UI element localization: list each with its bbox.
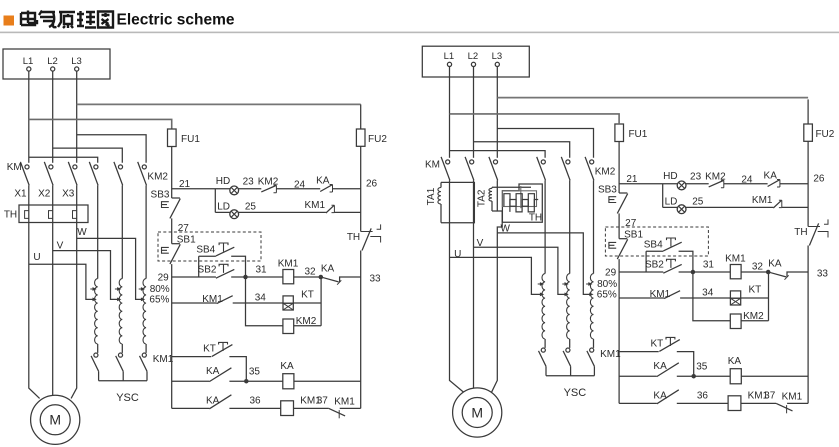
svg-text:L3: L3: [492, 51, 503, 62]
svg-text:KA: KA: [280, 361, 294, 372]
svg-text:SB1: SB1: [624, 230, 643, 241]
svg-text:23: 23: [243, 177, 255, 188]
svg-text:26: 26: [366, 179, 378, 190]
svg-text:L2: L2: [468, 51, 479, 62]
svg-text:KM1: KM1: [650, 289, 671, 300]
svg-text:L1: L1: [444, 51, 455, 62]
svg-text:KA: KA: [768, 259, 782, 270]
svg-text:KM2: KM2: [743, 311, 764, 322]
svg-text:KM1: KM1: [782, 392, 803, 403]
svg-text:YSC: YSC: [116, 392, 139, 404]
svg-text:65%: 65%: [149, 294, 169, 305]
svg-text:34: 34: [255, 293, 267, 304]
svg-text:KM1: KM1: [334, 397, 355, 408]
svg-text:KM2: KM2: [705, 172, 726, 183]
svg-text:FU1: FU1: [628, 129, 647, 140]
svg-text:KA: KA: [206, 366, 220, 377]
svg-text:M: M: [471, 404, 483, 420]
svg-text:37: 37: [317, 395, 329, 406]
svg-text:23: 23: [690, 172, 702, 183]
svg-text:KT: KT: [301, 290, 314, 301]
svg-text:KT: KT: [651, 339, 664, 350]
svg-text:U: U: [454, 249, 461, 260]
svg-text:KM: KM: [7, 162, 22, 173]
svg-text:24: 24: [294, 179, 306, 190]
svg-text:SB2: SB2: [198, 265, 217, 276]
svg-text:L1: L1: [23, 56, 34, 67]
svg-text:X2: X2: [38, 189, 51, 200]
svg-text:LD: LD: [665, 197, 678, 208]
svg-text:SB2: SB2: [645, 260, 664, 271]
svg-text:KM2: KM2: [296, 316, 317, 327]
svg-text:31: 31: [703, 260, 715, 271]
svg-text:65%: 65%: [597, 289, 617, 300]
svg-text:KA: KA: [206, 396, 220, 407]
svg-text:FU1: FU1: [181, 134, 200, 145]
svg-text:KM1: KM1: [305, 200, 326, 211]
svg-text:32: 32: [304, 267, 316, 278]
svg-text:TA2: TA2: [476, 189, 487, 207]
svg-text:FU2: FU2: [368, 134, 387, 145]
svg-text:26: 26: [813, 174, 825, 185]
svg-text:X3: X3: [62, 189, 75, 200]
svg-text:X1: X1: [14, 189, 27, 200]
svg-text:25: 25: [692, 196, 704, 207]
svg-text:31: 31: [255, 265, 267, 276]
svg-text:35: 35: [696, 362, 708, 373]
svg-text:KM1: KM1: [153, 354, 174, 365]
svg-text:L3: L3: [71, 56, 82, 67]
svg-text:33: 33: [817, 269, 829, 280]
svg-text:KM2: KM2: [258, 177, 279, 188]
svg-text:21: 21: [626, 174, 638, 185]
svg-text:36: 36: [697, 391, 709, 402]
svg-text:SB3: SB3: [151, 190, 170, 201]
svg-text:KT: KT: [749, 285, 762, 296]
svg-text:KM1: KM1: [278, 259, 299, 270]
svg-text:KA: KA: [321, 264, 335, 275]
svg-text:FU2: FU2: [815, 129, 834, 140]
svg-text:KM: KM: [425, 160, 440, 171]
svg-text:25: 25: [245, 201, 257, 212]
svg-text:37: 37: [764, 390, 776, 401]
svg-text:SB4: SB4: [196, 244, 215, 255]
svg-text:TH: TH: [794, 227, 807, 238]
svg-text:W: W: [77, 227, 87, 238]
svg-text:KA: KA: [653, 361, 667, 372]
svg-text:TH: TH: [347, 232, 360, 243]
svg-text:SB3: SB3: [598, 185, 617, 196]
svg-text:U: U: [33, 252, 40, 263]
svg-text:L2: L2: [47, 56, 58, 67]
svg-text:YSC: YSC: [564, 387, 587, 399]
svg-text:Electric scheme: Electric scheme: [117, 12, 235, 29]
svg-text:KM2: KM2: [595, 167, 616, 178]
svg-text:29: 29: [158, 273, 170, 284]
svg-text:29: 29: [605, 268, 617, 279]
svg-text:KA: KA: [764, 171, 778, 182]
svg-text:KM1: KM1: [202, 294, 223, 305]
svg-text:HD: HD: [216, 176, 230, 187]
svg-text:LD: LD: [217, 202, 230, 213]
svg-text:HD: HD: [663, 171, 677, 182]
svg-text:TH: TH: [4, 210, 17, 221]
svg-text:24: 24: [741, 174, 753, 185]
svg-text:33: 33: [369, 274, 381, 285]
svg-text:TA1: TA1: [426, 187, 437, 205]
svg-text:KT: KT: [203, 344, 216, 355]
svg-text:36: 36: [249, 396, 261, 407]
svg-text:M: M: [49, 412, 61, 428]
svg-text:SB4: SB4: [644, 239, 663, 250]
svg-text:35: 35: [249, 367, 261, 378]
svg-text:TH: TH: [529, 213, 542, 224]
svg-text:32: 32: [752, 262, 764, 273]
svg-text:KA: KA: [653, 391, 667, 402]
svg-text:KM1: KM1: [600, 349, 621, 360]
svg-text:34: 34: [702, 288, 714, 299]
svg-text:KM1: KM1: [752, 195, 773, 206]
svg-text:KM2: KM2: [147, 172, 168, 183]
svg-text:KM1: KM1: [725, 254, 746, 265]
svg-text:KA: KA: [316, 176, 330, 187]
svg-text:SB1: SB1: [177, 235, 196, 246]
svg-text:KA: KA: [728, 356, 742, 367]
svg-text:21: 21: [179, 179, 191, 190]
